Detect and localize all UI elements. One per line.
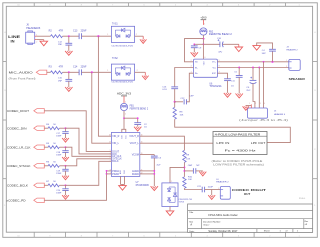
svg-text:C13: C13 [73,29,78,32]
wire TVS2 pin2 to ground [135,71,146,73]
wire LINE_C down to codec VIN_R [98,36,111,136]
junction C12 tap [68,35,70,37]
wire C14 to TVS2 [82,71,112,73]
block 4-POLE LOW-PASS FILTER [213,132,267,155]
capacitor C4 56P [262,49,276,55]
wire to C2 [124,118,138,123]
svg-text:10K: 10K [180,114,184,116]
svg-text:CAP: CAP [188,164,193,167]
svg-text:2: 2 [255,103,256,105]
svg-text:DGND: DGND [132,173,139,176]
wire R8 to LPF OUT loop [175,119,291,142]
svg-text:15NF: 15NF [56,155,62,157]
junction J5 pin4 [263,61,265,63]
svg-text:CODEC_LR_CLK: CODEC_LR_CLK [7,145,31,149]
svg-text:1U: 1U [144,127,147,129]
wire VO- to speaker [217,67,288,69]
svg-text:<Doc>: <Doc> [203,224,210,227]
svg-text:1: 1 [249,103,250,105]
ground at C9 [191,52,198,56]
wire TVS1 pin2 to ground [135,35,144,37]
svg-text:17: 17 [109,142,111,144]
wire C12 to ground [68,45,70,51]
label CODEC RIGHT OUT [232,188,266,196]
svg-text:FERRITE BEAD 2: FERRITE BEAD 2 [130,108,149,111]
port xCODEC_PD [7,198,45,202]
svg-text:FERRITE BEAD 2: FERRITE BEAD 2 [209,33,233,36]
codec bottom pins to ground [121,176,125,185]
ground at C15 [65,87,72,91]
wire R10 to C21 [184,188,202,189]
capacitor C20 15NF [56,185,68,194]
svg-text:xCODEC_PD: xCODEC_PD [7,198,26,202]
wire R7 to node [59,184,65,186]
svg-text:1: 1 [218,188,219,190]
wire VOUT_L to LPF IN [140,142,213,144]
tvs TVS2 CDSOD323-T05 [107,58,137,83]
capacitor C17 15NF [56,128,68,137]
connector J3 HEADER 2 speaker [286,46,300,70]
resistor R9 10K [183,150,191,162]
wire xCODEC_PD to codec [44,171,111,200]
svg-text:47R: 47R [59,29,64,32]
svg-text:HEADER 4: HEADER 4 [274,113,286,116]
svg-text:6: 6 [205,57,206,59]
ground under codec [119,186,127,191]
ground at C18 [62,157,69,161]
svg-text:IN-: IN- [195,67,198,69]
wire stub to C15 [68,72,70,79]
svg-text:Rev: Rev [305,221,309,223]
svg-text:TVS1: TVS1 [112,24,118,26]
svg-text:AGD: AGD [119,169,122,174]
connector J5 HEADER 4 [248,103,286,118]
svg-text:Date:: Date: [189,230,195,233]
junction PDDA [106,170,108,172]
wire R6 to node [59,165,65,167]
capacitor C21 10UF [197,186,214,192]
wire BYP to C11 [217,73,227,79]
resistor R10 10K [183,176,193,188]
wire VCOM to C3 [140,154,155,156]
wire stub to C12 [68,36,70,43]
wire C4 to ground [257,43,273,49]
svg-text:PCM3008: PCM3008 [136,185,150,187]
wire CODEC_DOUT to codec [44,111,111,152]
svg-text:1: 1 [286,60,287,62]
capacitor C13 22NF [73,29,87,39]
svg-text:4: 4 [264,103,265,105]
junction J5 pin3 [258,67,260,69]
wire MIC to R3 [47,71,51,73]
wire C20 to ground [65,191,67,196]
svg-text:2: 2 [136,34,137,36]
port MIC_AUDIO [36,70,47,74]
title block [188,204,313,233]
ground at codec right [151,186,158,190]
svg-text:VCOM: VCOM [132,153,139,156]
wire CODEC_DIN to codec [66,128,112,154]
ground at TVS3 [166,211,174,216]
wire C19 to ground [65,171,67,176]
junction CODEC_BCLK node [65,184,67,186]
border zone ticks right [313,61,318,178]
ground at J6 [40,40,48,46]
svg-text:FPGA S6KL Audio Codec: FPGA S6KL Audio Codec [208,213,238,217]
svg-text:OUT: OUT [244,192,251,196]
svg-text:CDSOD323-T05: CDSOD323-T05 [111,82,134,84]
ground at C2 [134,127,141,131]
ground at C4 [253,46,261,51]
svg-text:VIN_L: VIN_L [112,142,119,145]
wire VOUT_R to R9 [140,136,185,150]
svg-text:P.LS.L: P.LS.L [299,198,306,200]
capacitor C16 coupling [162,87,178,91]
port CODEC_LR_CLK [7,145,44,149]
resistor R5 56 [46,143,59,149]
wire VO+ to speaker [217,61,288,63]
wire C3 down to AGND net [153,158,155,186]
svg-text:TVS2: TVS2 [112,58,118,60]
wire VDD to C10 [203,43,219,45]
wire J6 pin2 to ground [37,39,44,41]
resistor R2 47R [49,29,64,37]
svg-text:FB1: FB1 [130,106,135,108]
svg-text:SPEAKER: SPEAKER [289,77,306,81]
port CODEC_BCLK [7,183,44,187]
wire C5 to ground [238,77,240,93]
wire codec DGND pin [140,173,155,175]
ground at C11 [224,93,231,97]
ground at CAP NP [199,171,206,176]
junction C5 [238,67,240,69]
capacitor C10 47U [217,38,223,54]
junction snubber C4 [271,61,273,63]
border zone ticks left [3,61,7,178]
junction DGND [153,173,155,175]
junction C9 [193,43,195,45]
svg-text:CDSOD323-T05: CDSOD323-T05 [111,45,134,47]
wire CODEC_DIN to resistor [44,127,48,129]
svg-text:Sunday, October 08, 2017: Sunday, October 08, 2017 [208,230,238,233]
wire C16 to node [174,89,176,102]
junction LPF node [183,166,185,168]
capacitor CAP NP [184,164,200,173]
svg-text:2: 2 [204,39,205,41]
junction CODEC_LR_CLK node [65,146,67,148]
wire VDD to C9 [194,43,203,45]
capacitor C14 22NF [73,66,87,76]
resistor R3 47R [49,66,64,74]
wire CODEC_LR_CLK to resistor [44,146,48,148]
wire PDAD stub [107,173,112,175]
svg-text:C14: C14 [73,66,78,69]
svg-text:LOW PASS FILTER schematic): LOW PASS FILTER schematic) [213,163,264,166]
wire TVS3 to ground [169,207,171,211]
svg-text:0.1U: 0.1U [162,89,167,91]
wire codec AGND pin [140,170,155,172]
wire IN- to coupling network [175,68,194,87]
svg-text:1: 1 [107,34,108,36]
svg-text:2: 2 [286,66,287,68]
svg-text:IN: IN [11,38,15,43]
ground at C20 [62,195,69,199]
junction CODEC_SYSCLK node [65,165,67,167]
resistor R7 56 [46,181,59,187]
wire J5 pin3 [258,68,260,109]
resistor R8 10K [173,107,184,119]
svg-text:DGD: DGD [124,169,126,174]
svg-text:CODEC_SYSCLK: CODEC_SYSCLK [7,164,31,168]
svg-text:HEADER 2: HEADER 2 [216,181,229,184]
ground at TVS1 [140,36,147,43]
svg-text:HEADER 2: HEADER 2 [286,48,298,51]
capacitor C15 1NF [58,78,72,83]
junction AGND [153,170,155,172]
ground at C17 [62,138,69,142]
svg-text:1U: 1U [231,85,234,87]
junction PDAD [106,173,108,175]
capacitor C19 15NF [56,166,68,175]
capacitor C18 15NF [56,147,68,156]
svg-text:2: 2 [137,70,138,72]
port CODEC_DIN [7,126,44,130]
svg-text:(Jumper J5.3 to J5.4): (Jumper J5.3 to J5.4) [239,119,288,122]
svg-text:4-POLE LOW-PASS FILTER: 4-POLE LOW-PASS FILTER [215,133,261,136]
junction supply-C2 [123,117,125,119]
connector J4 HEADER 2 [216,179,230,199]
junction C6 [252,67,254,69]
wire FB2 to amp VDD [202,35,204,59]
wire C6 to J5 pin2 [253,83,255,108]
capacitor C9 [191,44,202,49]
svg-text:10K: 10K [186,159,190,161]
junction VDD-decoupling [203,43,205,45]
ground at C10 [235,44,243,51]
svg-text:HEADER3: HEADER3 [26,27,41,30]
svg-text:3: 3 [260,103,261,105]
wire to C5 [238,68,240,76]
resistor R6 56 [46,162,59,168]
svg-text:6.8P: 6.8P [189,96,194,98]
label MIC_AUDIO [9,71,36,81]
port CODEC_SYSCLK [7,164,44,168]
wire J6 pin1 to R2 [37,35,51,37]
wire split to codec top pins [122,129,126,132]
ferrite bead FB2 [200,24,233,41]
wire snubber to C4 [272,51,274,62]
svg-text:2: 2 [125,114,126,116]
junction CAP NP node [183,170,185,172]
capacitor C11 1U [224,79,235,88]
svg-text:2: 2 [191,60,192,62]
wire CODEC_BCLK to resistor [44,184,48,186]
wire R2 to C13 [63,35,80,37]
wire to C6 [252,68,254,81]
wire J5 pin4 [263,62,265,108]
wire C18 to ground [65,152,67,157]
wire C17 to ground [65,133,67,138]
connector J6 HEADER3 [26,24,41,45]
svg-text:2: 2 [36,41,37,43]
svg-text:15NF: 15NF [56,136,62,138]
wire CODEC_LR_CLK to codec [66,147,112,156]
op-amp U6 TPA6211 [191,57,223,88]
svg-text:(From Front Panel): (From Front Panel) [9,78,36,81]
wire CODEC_SYSCLK to codec [66,159,112,166]
capacitor C2 1U [134,123,147,129]
capacitor C12 1NF [58,42,72,47]
note refer to filter schematic [212,160,265,166]
svg-text:47U: 47U [218,52,222,54]
svg-text:+5V0: +5V0 [200,16,207,20]
junction CODEC_DIN node [65,127,67,129]
svg-text:1NF: 1NF [58,44,63,46]
junction VDD-SD [203,38,205,40]
svg-text:CODEC_DOUT: CODEC_DOUT [7,109,29,113]
ferrite bead FB1 [120,102,148,116]
svg-text:PDAD: PDAD [112,173,119,176]
svg-text:Sheet: Sheet [264,230,270,233]
label LINE IN [8,34,20,43]
junction C15 tap [68,71,70,73]
svg-text:22NF: 22NF [81,66,87,69]
wire FB1 to codec VDD [123,111,125,130]
capacitor C22 6.8P [180,96,194,105]
junction node LINE_C [97,35,99,37]
wire C10 to ground [223,43,239,45]
svg-text:Fc = 4300 Hz: Fc = 4300 Hz [225,150,258,153]
wire C22 to IN+ [187,73,194,102]
junction C2 top [137,117,139,119]
capacitor C3 4U7 [151,155,162,167]
wire CODEC_BCLK to codec [66,161,112,185]
svg-text:15NF: 15NF [56,193,62,195]
svg-text:Document Number: Document Number [203,220,221,223]
ground at C12 [65,51,72,55]
svg-text:10K: 10K [188,179,192,181]
power +5V0 [200,16,207,25]
svg-text:MIC_AUDIO: MIC_AUDIO [9,71,34,75]
wire node to C22 [175,101,183,103]
wire C21 to J4 [205,189,221,191]
svg-text:CODEC_DIN: CODEC_DIN [7,126,27,130]
svg-text:NP: NP [196,165,200,167]
svg-text:47R: 47R [59,66,64,69]
svg-text:56P: 56P [262,53,266,55]
resistor R4 56 [46,124,59,130]
wire VDD to SD pin [185,39,204,62]
wire CAP NP to ground [196,170,203,172]
wire CODEC_SYSCLK to resistor [44,165,48,167]
junction node MIC_C [91,71,93,73]
wire node to TVS3 [170,167,184,183]
wire R5 to node [59,146,65,148]
svg-text:VIN_R: VIN_R [112,135,119,138]
svg-text:TVS3: TVS3 [179,202,185,204]
border zone ticks top [34,3,285,7]
ground at C19 [62,176,69,180]
svg-text:VO-: VO- [212,67,216,69]
svg-text:18: 18 [109,135,111,137]
svg-text:15NF: 15NF [56,173,62,175]
wire C13 to TVS1 [82,35,112,37]
wire R4 to node [59,127,65,129]
ground at C5 [236,94,243,98]
tvs TVS1 CDSOD323-T05 [107,24,137,48]
svg-text:LPF IN: LPF IN [216,142,229,145]
tvs TVS3 CDSOD323-T05 [162,181,193,206]
wire C11 to ground [227,81,229,93]
svg-text:22NF: 22NF [81,29,87,32]
svg-text:BCLK: BCLK [112,160,119,163]
svg-text:10UF: 10UF [208,186,214,188]
svg-text:VOUT_L: VOUT_L [130,142,140,145]
svg-text:A: A [190,223,192,227]
svg-text:1: 1 [107,70,108,72]
wire C2 to ground [137,125,139,127]
wire MIC_C down to codec VIN_L [92,72,112,143]
svg-text:TPA6211: TPA6211 [209,85,222,88]
ground at J5 [243,106,249,111]
border zone ticks bottom [34,232,285,237]
wire J5 pin1 to ground [246,105,252,107]
capacitor C5 [234,71,242,77]
wire C15 to ground [68,81,70,87]
svg-text:ADC_3V3: ADC_3V3 [117,93,132,96]
svg-text:BYP: BYP [212,73,217,75]
svg-text:1: 1 [204,24,205,26]
svg-text:1: 1 [171,181,172,183]
port CODEC_DOUT [7,109,44,113]
wire R3 to C14 [63,71,80,73]
wire R9 to node [183,162,185,176]
svg-text:1NF: 1NF [58,80,63,82]
wire C9 to ground [193,48,195,53]
svg-text:LPF OUT: LPF OUT [251,142,266,145]
capacitor C6 2U2 electrolytic [246,77,256,92]
ground near J4 [208,190,215,200]
power ADC_3V3 [117,93,132,104]
junction chainA node [174,101,176,103]
codec U7 PCM3008 [109,133,150,187]
svg-text:VOUT_R: VOUT_R [129,135,139,138]
ground at TVS2 [142,72,149,79]
wire chainA node to R8 [174,102,176,108]
svg-text:CODEC_BCLK: CODEC_BCLK [7,183,28,187]
